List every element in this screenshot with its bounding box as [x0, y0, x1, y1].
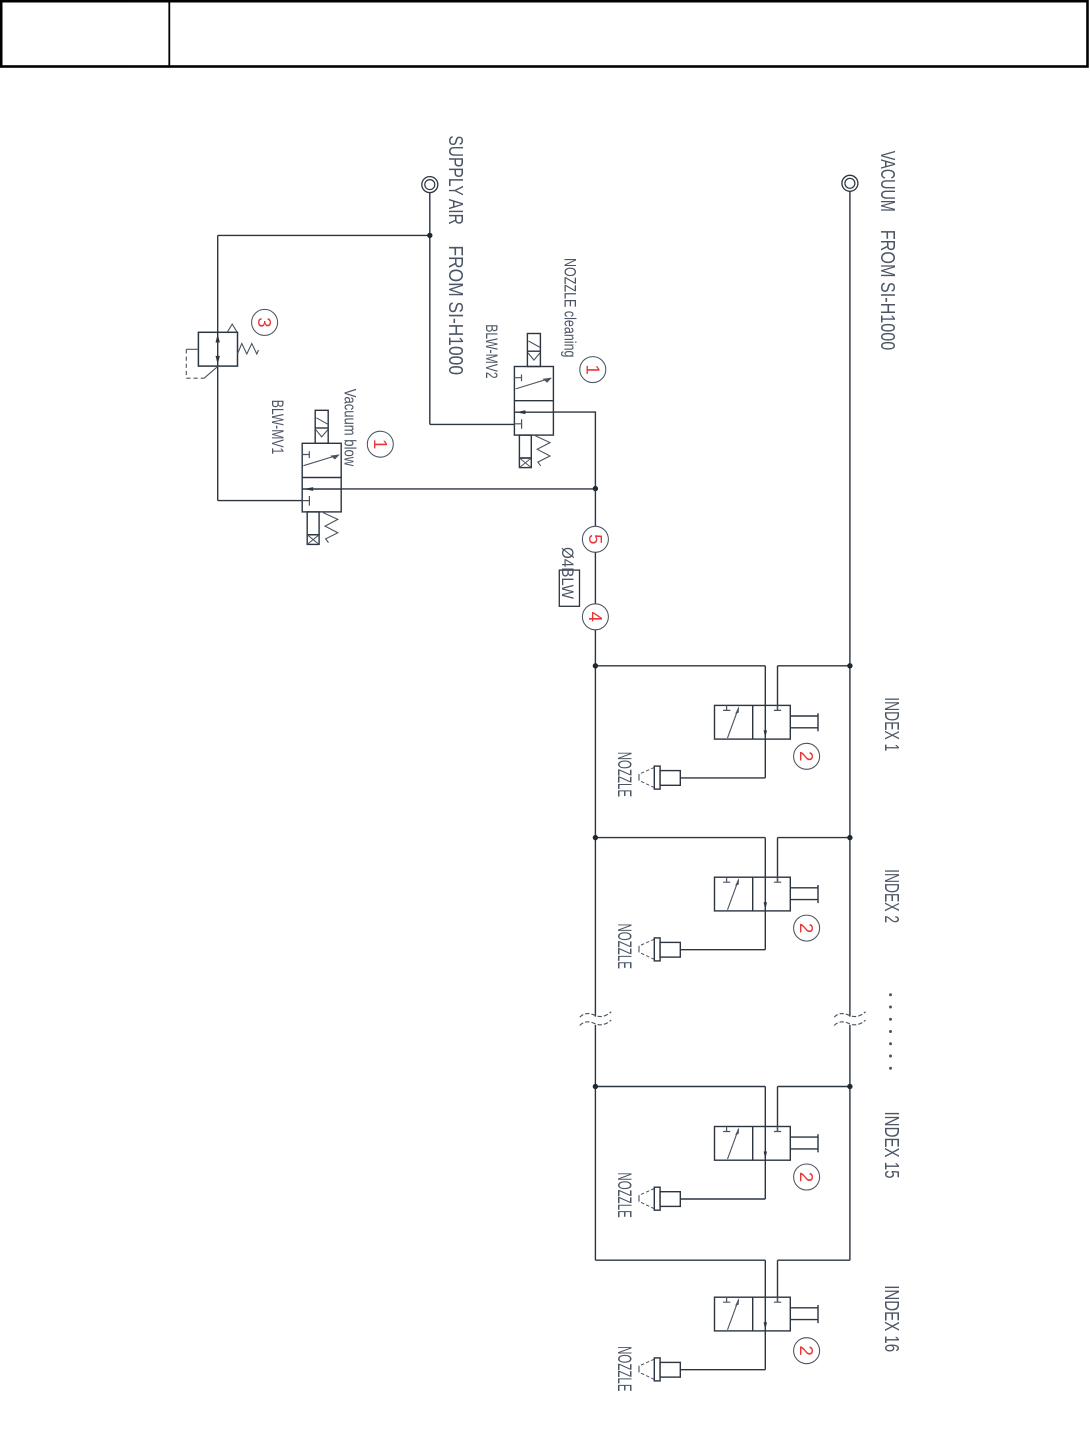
- balloon 4: [582, 604, 608, 630]
- nozzle (INDEX 1): [639, 766, 680, 789]
- node: blow line junction: [593, 486, 598, 491]
- wire: nozzle line (INDEX 1): [680, 777, 765, 779]
- node: blow bus tap (INDEX 1): [593, 663, 598, 668]
- wire: nozzle line (INDEX 15): [680, 1198, 765, 1200]
- balloon 5: [582, 526, 608, 552]
- wire: blow bus to manifold: [594, 630, 596, 1017]
- title block header table: [1, 0, 1087, 68]
- node: blow bus tap (INDEX 2): [593, 835, 598, 840]
- nozzle (INDEX 15): [639, 1187, 680, 1210]
- wire: vacuum feed (INDEX 15): [778, 1087, 850, 1132]
- svg-text:INDEX 15: INDEX 15: [880, 1112, 903, 1179]
- connector: VACUUM port: [842, 175, 858, 191]
- svg-text:Ø4BLW: Ø4BLW: [558, 547, 576, 599]
- svg-text:SUPPLY AIR: SUPPLY AIR: [444, 135, 467, 225]
- break symbol (blow bus): [580, 1012, 611, 1026]
- svg-text:5: 5: [585, 534, 606, 544]
- svg-text:INDEX 2: INDEX 2: [880, 869, 903, 923]
- wire: blow feed (INDEX 2): [595, 837, 765, 839]
- balloon 2 (INDEX 15): [794, 1164, 820, 1190]
- wire: MV1 outlet: [341, 488, 595, 490]
- svg-text:BLW-MV2: BLW-MV2: [482, 324, 500, 379]
- label Ø4BLW with box: [559, 570, 579, 606]
- svg-text:NOZZLE: NOZZLE: [613, 1346, 634, 1391]
- wire: blow bus between balloons: [594, 552, 596, 603]
- node: vacuum bus tap (INDEX 15): [847, 1084, 852, 1089]
- svg-text:2: 2: [796, 1346, 817, 1356]
- nozzle (INDEX 16): [639, 1358, 680, 1381]
- node: vacuum bus tap (INDEX 1): [847, 663, 852, 668]
- svg-text:NOZZLE: NOZZLE: [613, 924, 634, 969]
- wire: blow bus upper: [594, 489, 596, 527]
- valve 2 (INDEX 2): [715, 877, 819, 911]
- wire: MV2 outlet: [553, 412, 595, 489]
- wire: vacuum feed (INDEX 1): [778, 666, 850, 711]
- svg-text:2: 2: [796, 751, 817, 761]
- node: supply branch junction: [427, 233, 432, 238]
- svg-text:NOZZLE: NOZZLE: [613, 1172, 634, 1217]
- wire: valve through line (INDEX 16): [764, 1260, 766, 1370]
- valve 2 (INDEX 15): [715, 1127, 819, 1161]
- wire: regulator feed line: [217, 235, 219, 500]
- svg-text:BLW-MV1: BLW-MV1: [268, 400, 286, 455]
- wire: nozzle line (INDEX 2): [680, 949, 765, 951]
- wire: vacuum feed (INDEX 16): [778, 1260, 850, 1302]
- wire: blow feed (INDEX 1): [595, 665, 765, 667]
- balloon 2 (INDEX 1): [794, 743, 820, 769]
- wire: blow feed (INDEX 15): [595, 1086, 765, 1088]
- wire: blow feed (INDEX 16): [595, 1259, 765, 1261]
- svg-text:Vacuum blow: Vacuum blow: [340, 389, 358, 467]
- valve BLW-MV2 (solenoid 3/2, NOZZLE cleaning): [514, 334, 553, 468]
- wire: MV1 inlet: [218, 500, 303, 502]
- node: blow bus tap (INDEX 15): [593, 1084, 598, 1089]
- wire: nozzle line (INDEX 16): [680, 1369, 765, 1371]
- wire: branch to regulator: [218, 234, 430, 236]
- svg-text:2: 2: [796, 1172, 817, 1182]
- wire: supply drop line: [429, 193, 431, 425]
- wire: valve through line (INDEX 1): [764, 666, 766, 778]
- wire: vacuum feed (INDEX 2): [778, 838, 850, 883]
- break symbol (vacuum bus): [834, 1012, 865, 1026]
- wire: valve through line (INDEX 15): [764, 1087, 766, 1200]
- continuation dots: [889, 993, 892, 996]
- svg-text:3: 3: [254, 317, 275, 327]
- regulator R (item 3): [186, 324, 258, 378]
- wire: valve through line (INDEX 2): [764, 838, 766, 950]
- svg-text:VACUUM: VACUUM: [876, 151, 899, 212]
- nozzle (INDEX 2): [639, 938, 680, 961]
- svg-text:NOZZLE: NOZZLE: [613, 752, 634, 797]
- svg-text:2: 2: [796, 923, 817, 933]
- svg-text:4: 4: [585, 612, 606, 622]
- svg-text:1: 1: [582, 364, 603, 374]
- valve BLW-MV1 (solenoid 3/2, Vacuum blow): [302, 410, 341, 544]
- node: vacuum bus tap (INDEX 2): [847, 835, 852, 840]
- wire: MV2 inlet: [430, 423, 515, 425]
- valve 2 (INDEX 1): [715, 705, 819, 739]
- balloon 2 (INDEX 16): [794, 1338, 820, 1364]
- balloon 2 (INDEX 2): [794, 915, 820, 941]
- svg-text:FROM SI-H1000: FROM SI-H1000: [876, 230, 899, 350]
- balloon 1 (MV1): [367, 431, 393, 457]
- svg-text:NOZZLE cleaning: NOZZLE cleaning: [561, 258, 579, 358]
- valve 2 (INDEX 16): [715, 1297, 819, 1331]
- wire: vacuum bus: [849, 192, 851, 1017]
- svg-text:FROM SI-H1000: FROM SI-H1000: [444, 246, 467, 376]
- svg-text:INDEX 1: INDEX 1: [880, 697, 903, 751]
- svg-text:1: 1: [370, 439, 391, 449]
- balloon 1 (MV2): [580, 357, 606, 383]
- connector: SUPPLY AIR port: [422, 177, 438, 193]
- svg-text:INDEX 16: INDEX 16: [880, 1285, 903, 1352]
- balloon 3: [252, 309, 278, 335]
